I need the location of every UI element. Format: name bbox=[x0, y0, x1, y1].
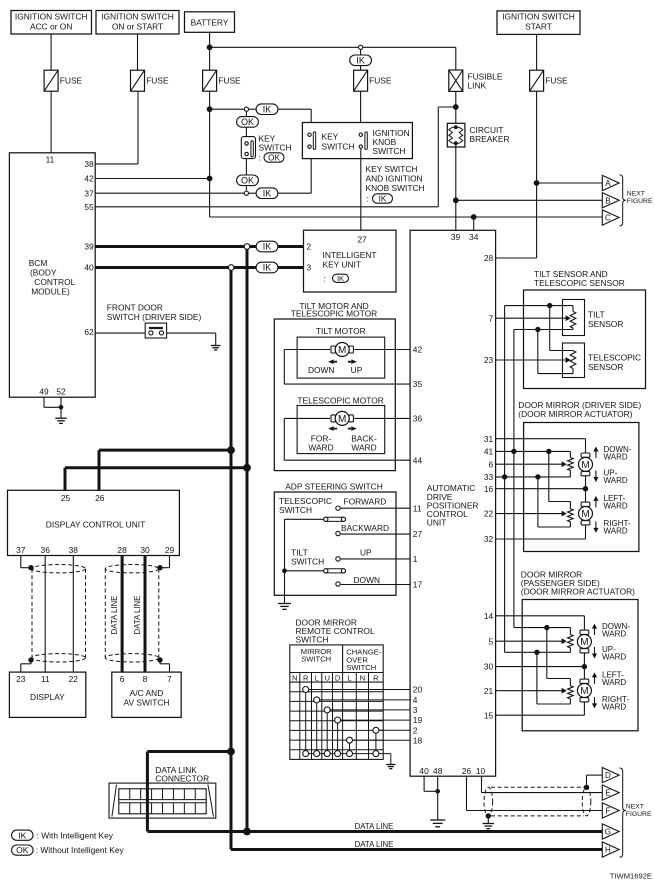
svg-text:SWITCH: SWITCH bbox=[373, 146, 406, 156]
wires: mirror switch rows to ADP pins 20 4 3 19 2 18 bbox=[306, 690, 410, 741]
svg-text:62: 62 bbox=[84, 327, 94, 337]
wire: branch down to driver swivel pot top bbox=[549, 451, 571, 508]
wire: ADP pin 15 to passenger left/right motor bbox=[496, 699, 585, 715]
tilt motor inner box bbox=[297, 337, 385, 378]
svg-text:DISPLAY CONTROL UNIT: DISPLAY CONTROL UNIT bbox=[46, 519, 145, 529]
fuse F2 bbox=[131, 70, 169, 91]
wire: shield to ground bbox=[487, 816, 489, 824]
door mirror passenger side box bbox=[522, 600, 638, 731]
motor M6 passenger mirror left/right bbox=[577, 679, 591, 702]
svg-text:CONTROL: CONTROL bbox=[34, 277, 75, 287]
svg-text:OK: OK bbox=[268, 153, 280, 162]
svg-text:10: 10 bbox=[476, 766, 486, 776]
pin 38 label on BCM bbox=[84, 159, 94, 169]
label: BACKWARD bbox=[341, 523, 389, 533]
tilt switch slider bbox=[285, 569, 346, 573]
pin 27 label on ADP left edge bbox=[413, 529, 423, 539]
node: junction shield / D branch bbox=[584, 785, 589, 790]
wire: ADP pin 41 to driver tilt pot top bbox=[496, 451, 571, 457]
label: TELESCOPIC SENSOR bbox=[588, 352, 641, 372]
wire: supply branch to telescopic sensor top bbox=[550, 306, 573, 351]
svg-text:M: M bbox=[580, 686, 588, 697]
wire: BCM pin 55 branch up to fusible link bbox=[95, 107, 456, 207]
wire: ground branch to telescopic sensor bottom bbox=[538, 330, 573, 374]
label: DOOR MIRROR (PASSENGER SIDE) (DOOR MIRROR ACTUATOR) bbox=[521, 569, 635, 596]
wire: backward contact to ADP pin 27 bbox=[341, 533, 410, 535]
wire: sensor-supply vertical down to passenger tilt pot bottom bbox=[505, 477, 571, 652]
pin 16 label on ADP right edge bbox=[484, 484, 494, 494]
wire: fusible link drop bbox=[455, 47, 457, 128]
wire: data line branch through data link connector (thick) bbox=[147, 752, 231, 832]
svg-text:WARD: WARD bbox=[604, 527, 628, 536]
wire: DCU pin 36 to display pin 11 bbox=[44, 556, 46, 673]
arrow+label: passenger LEFT-WARD bbox=[592, 671, 626, 688]
svg-text:4: 4 bbox=[413, 695, 418, 705]
power source box: IGNITION SWITCH ON or START bbox=[96, 11, 179, 35]
wire: forward contact to ADP pin 11 bbox=[341, 507, 410, 509]
svg-text:41: 41 bbox=[484, 447, 494, 457]
shield: right shielded cable around data line wires bbox=[105, 565, 159, 663]
node: junction pin 41 branch to lower pot bbox=[546, 449, 551, 454]
label oval OK upper bbox=[237, 117, 259, 128]
label: CHANGE-OVER SWITCH header bbox=[346, 648, 381, 673]
connector circle on pin 37 line bbox=[244, 191, 248, 195]
svg-text:IK: IK bbox=[379, 194, 387, 203]
svg-text:33: 33 bbox=[484, 472, 494, 482]
wire: battery vertical below F3 down and right to next-figure C bbox=[210, 91, 603, 217]
svg-text:23: 23 bbox=[484, 355, 494, 365]
wire: branch down to driver swivel pot bottom bbox=[538, 477, 571, 527]
next-figure arrow C bbox=[602, 210, 619, 225]
pin 15 label on ADP right edge bbox=[484, 710, 494, 720]
potentiometer: driver mirror swivel position bbox=[568, 509, 574, 522]
svg-text:42: 42 bbox=[84, 174, 94, 184]
wire: ADP pin 33 to driver tilt pot bottom bbox=[496, 471, 571, 477]
key switch and ignition knob switch box (with intelligent key) bbox=[302, 123, 412, 159]
node: junction sensor-ground vertical / pin 41 bbox=[511, 449, 516, 454]
svg-text:WARD: WARD bbox=[351, 443, 376, 453]
svg-text:L: L bbox=[315, 673, 319, 682]
node: junction B branch bbox=[453, 197, 459, 203]
svg-text:FUSE: FUSE bbox=[146, 75, 169, 85]
wire: ADP pin 23 wiper arrow into telescopic sensor bbox=[496, 357, 571, 363]
next-figure arrow B bbox=[602, 193, 619, 208]
svg-text:START: START bbox=[525, 22, 552, 32]
svg-text:M: M bbox=[580, 637, 588, 648]
svg-text:DOWN: DOWN bbox=[308, 365, 335, 375]
node: junction pin29/shield bbox=[157, 565, 162, 570]
svg-text:IGNITION SWITCH: IGNITION SWITCH bbox=[101, 12, 174, 22]
svg-text:49: 49 bbox=[39, 387, 49, 397]
wire: ADP pin 26 down and right to next-figure F bbox=[467, 776, 603, 810]
pin 35 label on ADP left edge bbox=[413, 379, 423, 389]
wire: ADP pin 31 to driver mirror up/down motor bbox=[496, 439, 586, 454]
svg-text:TILT: TILT bbox=[588, 309, 605, 319]
wire: ADP pin 10 down and right to next-figure E bbox=[482, 776, 603, 792]
svg-text:SENSOR: SENSOR bbox=[588, 362, 623, 372]
tilt motor and telescopic motor outer box bbox=[274, 319, 395, 471]
label: DATA LINE (vertical, left) bbox=[110, 596, 119, 635]
node: junction sensor-supply vertical / pin 33 bbox=[502, 474, 507, 479]
svg-text:52: 52 bbox=[56, 387, 66, 397]
wire: ADP pin 21 wiper arrow into passenger swivel pot bbox=[496, 688, 567, 694]
svg-text:G: G bbox=[605, 828, 611, 837]
node: junction C line / ADP 34 bbox=[471, 214, 477, 220]
wire: shield drain up to next-figure D bbox=[587, 775, 603, 787]
tilt and telescopic sensor outer box bbox=[524, 290, 646, 389]
svg-text:7: 7 bbox=[167, 674, 172, 684]
svg-text:N: N bbox=[292, 673, 297, 682]
node: junction 40/48 ground bbox=[435, 789, 440, 794]
label oval OK lower bbox=[237, 175, 259, 186]
wire: sensor supply line from ADP bbox=[505, 306, 573, 477]
svg-text::: : bbox=[324, 274, 326, 284]
node: battery junction at bus bbox=[207, 44, 213, 50]
circuit breaker CB bbox=[447, 123, 509, 147]
contact circle: up bbox=[336, 557, 340, 561]
contact circle: forward bbox=[336, 506, 340, 510]
node: junction pin 30 / motor link bbox=[582, 664, 587, 669]
wire: ADP pin 16 common to both driver motors bbox=[496, 475, 586, 504]
wire: DATA LINE to next-figure G (thick) bbox=[147, 830, 602, 833]
pin 11 label on BCM bbox=[46, 155, 55, 165]
svg-text:WARD: WARD bbox=[604, 502, 628, 511]
svg-text:KEY SWITCH: KEY SWITCH bbox=[366, 164, 418, 174]
svg-text:21: 21 bbox=[484, 686, 494, 696]
label: UP bbox=[360, 548, 372, 558]
pin 27 label on intelligent key unit bbox=[357, 235, 367, 245]
next-figure arrow E bbox=[602, 785, 619, 800]
svg-text:20: 20 bbox=[413, 685, 423, 695]
svg-text:40: 40 bbox=[84, 263, 94, 273]
svg-text:SWITCH: SWITCH bbox=[259, 143, 292, 153]
front door switch symbol bbox=[145, 323, 166, 338]
label: TILT MOTOR AND TELESCOPIC MOTOR bbox=[291, 301, 377, 319]
node: junction pin 16 / motor link bbox=[583, 486, 588, 491]
wire: key switch IK top path bbox=[210, 109, 312, 133]
wire: BCM pin 40 line (thick) to intelligent key unit pin 3 bbox=[95, 266, 303, 269]
wire: BATTERY down to fuse F3 bbox=[209, 32, 211, 70]
node: junction 49/52 bbox=[59, 405, 64, 410]
key switch (without intelligent key) symbol bbox=[241, 134, 291, 159]
label: TELESCOPIC SWITCH bbox=[279, 496, 332, 515]
svg-text:KEY UNIT: KEY UNIT bbox=[323, 260, 361, 270]
svg-text:38: 38 bbox=[84, 159, 94, 169]
node: junction shield bottom left bbox=[28, 657, 33, 662]
arrow+label: driver RIGHT-WARD bbox=[593, 519, 631, 536]
svg-text:WARD: WARD bbox=[602, 678, 626, 687]
svg-text::: : bbox=[259, 153, 261, 163]
svg-text:27: 27 bbox=[357, 235, 367, 245]
pin 55 label on BCM bbox=[84, 202, 94, 212]
svg-text:(DOOR MIRROR ACTUATOR): (DOOR MIRROR ACTUATOR) bbox=[518, 409, 632, 419]
fuse F1 bbox=[44, 70, 82, 91]
svg-text:TILT MOTOR: TILT MOTOR bbox=[316, 326, 366, 336]
svg-text:M: M bbox=[338, 414, 346, 425]
svg-text:(DOOR MIRROR ACTUATOR): (DOOR MIRROR ACTUATOR) bbox=[521, 587, 635, 597]
label: NEXT FIGURE (bottom) bbox=[626, 803, 652, 818]
wire: BCM pin 37 line with IK oval to key switch box bbox=[95, 148, 311, 193]
svg-text:UP: UP bbox=[360, 548, 372, 558]
svg-text:E: E bbox=[605, 789, 610, 798]
pin 4 label on ADP left edge bbox=[413, 695, 418, 705]
pin 40 label on BCM bbox=[84, 263, 94, 273]
node: junction shield bottom right bbox=[157, 657, 162, 662]
node: junction data line G bbox=[243, 828, 251, 836]
svg-text:48: 48 bbox=[433, 766, 443, 776]
svg-text:8: 8 bbox=[143, 674, 148, 684]
wire: branch down to passenger swivel pot top bbox=[547, 628, 571, 686]
svg-text:37: 37 bbox=[16, 545, 26, 555]
svg-text:3: 3 bbox=[413, 705, 418, 715]
svg-text:BCM: BCM bbox=[29, 258, 48, 268]
svg-text:6: 6 bbox=[120, 674, 125, 684]
label: DOOR MIRROR REMOTE CONTROL SWITCH bbox=[296, 617, 375, 644]
power source box: BATTERY bbox=[185, 12, 235, 33]
svg-text:KNOB SWITCH: KNOB SWITCH bbox=[366, 183, 425, 193]
svg-text:SWITCH: SWITCH bbox=[291, 557, 324, 567]
wire: BCM pin 39 line (thick) to intelligent key unit pin 2 bbox=[95, 245, 303, 248]
label oval IK on pin 40 line bbox=[256, 262, 278, 273]
fuse F3 bbox=[203, 70, 241, 91]
svg-text:7: 7 bbox=[489, 313, 494, 323]
svg-text:5: 5 bbox=[489, 636, 494, 646]
wire: ADP pin 30 common to both passenger motors bbox=[496, 652, 585, 681]
wire: branch (thick) to display control unit pin 26 bbox=[99, 450, 231, 490]
arrow: tilt DOWN direction bbox=[328, 359, 337, 364]
wire: DCU pin 29 to shield bbox=[160, 556, 170, 568]
node: junction pin37/shield bbox=[28, 565, 33, 570]
node: junction data line / DCU 25 bbox=[243, 464, 251, 472]
svg-text:ON or START: ON or START bbox=[112, 22, 163, 32]
wire: up contact to ADP pin 1 bbox=[341, 558, 410, 560]
svg-text:FIGURE: FIGURE bbox=[626, 811, 652, 818]
svg-text:39: 39 bbox=[451, 232, 461, 242]
arrow+label: passenger RIGHT-WARD bbox=[592, 695, 630, 712]
wire: IGN START to fuse F5 down to ADP pin 28 corner bbox=[536, 34, 538, 258]
wire: ADP pin 14 to passenger up/down motor bbox=[496, 616, 585, 631]
svg-text:WARD: WARD bbox=[604, 476, 628, 485]
svg-text:IK: IK bbox=[263, 104, 272, 114]
svg-text:2: 2 bbox=[413, 725, 418, 735]
pin 25 26 labels on DCU top bbox=[61, 493, 105, 503]
pin 30 label on ADP right edge bbox=[484, 662, 494, 672]
svg-text:19: 19 bbox=[413, 715, 423, 725]
pin 23 label on ADP right edge bbox=[484, 355, 494, 365]
arrow+label: driver LEFT-WARD bbox=[593, 494, 628, 511]
wire: IGN ACC to fuse F1 to BCM pin 11 bbox=[50, 34, 52, 153]
node: junction A branch bbox=[534, 180, 540, 186]
svg-text:BATTERY: BATTERY bbox=[191, 17, 229, 27]
telescopic motor inner box bbox=[297, 406, 385, 454]
svg-text:14: 14 bbox=[484, 611, 494, 621]
node: junction shield ground bbox=[486, 813, 491, 818]
ground: BCM bbox=[55, 418, 67, 423]
label oval IK above fuse F4 bbox=[350, 55, 372, 66]
label: TELESCOPIC MOTOR bbox=[297, 395, 383, 405]
wire: ADP pin 5 wiper arrow into passenger tilt pot bbox=[496, 638, 567, 644]
svg-text:26: 26 bbox=[95, 493, 105, 503]
svg-text:: With Intelligent Key: : With Intelligent Key bbox=[37, 830, 114, 840]
next-figure arrow G bbox=[602, 824, 619, 839]
pin 5 label on ADP right edge bbox=[489, 636, 494, 646]
svg-text:FRONT DOOR: FRONT DOOR bbox=[107, 303, 163, 313]
svg-text:OK: OK bbox=[241, 117, 254, 127]
svg-text:WARD: WARD bbox=[602, 629, 626, 638]
svg-text:IK: IK bbox=[356, 56, 365, 66]
svg-text:IK: IK bbox=[337, 274, 344, 283]
svg-text:3: 3 bbox=[307, 263, 312, 273]
legend: IK with intelligent key bbox=[12, 830, 114, 840]
pin 42 label on BCM bbox=[84, 174, 94, 184]
svg-text:30: 30 bbox=[484, 662, 494, 672]
label: TILT SENSOR AND TELESESCOPIC SENSOR bbox=[534, 269, 625, 288]
pin 37 label on BCM bbox=[84, 188, 94, 198]
pin 33 label on ADP right edge bbox=[484, 472, 494, 482]
svg-text:NEXT: NEXT bbox=[626, 803, 644, 810]
intelligent key unit box bbox=[304, 230, 397, 292]
svg-text:WARD: WARD bbox=[602, 653, 626, 662]
svg-text:40: 40 bbox=[419, 766, 429, 776]
node: junction supply to telescopic sensor bbox=[547, 303, 552, 308]
label: DATA LINK CONNECTOR bbox=[155, 765, 209, 784]
svg-text:28: 28 bbox=[117, 545, 127, 555]
wire: circuit breaker down to ADP pin 39 bbox=[455, 143, 457, 230]
svg-text:UP: UP bbox=[351, 365, 363, 375]
svg-text:SWITCH: SWITCH bbox=[296, 635, 329, 645]
shield: left shielded cable around DCU 36/38 wires bbox=[32, 565, 86, 663]
label: DATA LINE (H) bbox=[355, 840, 394, 849]
pin 3 label on intelligent key unit bbox=[307, 263, 312, 273]
legend: OK without intelligent key bbox=[12, 845, 125, 855]
svg-text:AND IGNITION: AND IGNITION bbox=[366, 174, 423, 184]
motor M4 driver mirror left/right bbox=[579, 502, 593, 525]
svg-text:H: H bbox=[605, 846, 611, 855]
wire: BCM pins 49/52 to ground bbox=[44, 397, 61, 418]
display box bbox=[9, 672, 85, 717]
pin 42 label on ADP left edge bbox=[413, 345, 423, 355]
svg-text:IGNITION SWITCH: IGNITION SWITCH bbox=[502, 12, 575, 22]
pin 40 48 26 10 labels on ADP bottom bbox=[419, 766, 485, 776]
pin 22 label on ADP right edge bbox=[484, 509, 494, 519]
node: battery to key-switch loop junction bbox=[207, 106, 213, 112]
svg-text:UNIT: UNIT bbox=[427, 518, 447, 528]
svg-text:SWITCH: SWITCH bbox=[322, 142, 355, 152]
svg-text:MODULE): MODULE) bbox=[31, 287, 70, 297]
pin 36 label on ADP left edge bbox=[413, 414, 423, 424]
wire: OK path vertical through small key switch bbox=[245, 112, 247, 191]
telescopic switch slider bbox=[285, 517, 346, 521]
pin 2 label on ADP left edge bbox=[413, 725, 418, 735]
svg-text:TELESCOPIC MOTOR: TELESCOPIC MOTOR bbox=[291, 309, 377, 319]
label oval IK on pin 39 line bbox=[256, 241, 278, 252]
wire: C line branch down to ADP pin 34 bbox=[473, 217, 475, 230]
svg-text:DATA LINE: DATA LINE bbox=[355, 840, 394, 849]
door mirror driver side box bbox=[524, 423, 639, 552]
svg-text:DATA LINE: DATA LINE bbox=[133, 596, 142, 635]
svg-text:11: 11 bbox=[41, 674, 50, 684]
BCM (body control module) box bbox=[9, 153, 95, 397]
pin 18 label on ADP left edge bbox=[413, 735, 423, 745]
svg-text:16: 16 bbox=[484, 484, 494, 494]
pin 31 label on ADP right edge bbox=[484, 434, 494, 444]
ADP steering switch box bbox=[274, 492, 396, 595]
svg-text:BREAKER: BREAKER bbox=[470, 134, 510, 144]
label oval IK on pin 37 line bbox=[256, 188, 278, 199]
svg-text:32: 32 bbox=[484, 534, 494, 544]
svg-text:FUSE: FUSE bbox=[60, 75, 83, 85]
svg-text:IGNITION SWITCH: IGNITION SWITCH bbox=[15, 12, 88, 22]
pin 39 label on BCM bbox=[84, 242, 94, 252]
svg-text:M: M bbox=[581, 509, 589, 520]
power source box: IGNITION SWITCH ACC or ON bbox=[11, 11, 92, 35]
node: junction data line / DCU 26 bbox=[227, 446, 235, 454]
svg-text:M: M bbox=[581, 460, 589, 471]
wire: BCM pin 62 to front door switch to ground bbox=[95, 333, 216, 345]
pin 2 label on intelligent key unit bbox=[307, 242, 312, 252]
wire: telescopic motor to ADP pin 36 bbox=[354, 417, 410, 419]
svg-text:15: 15 bbox=[484, 710, 494, 720]
svg-text:WARD: WARD bbox=[308, 443, 333, 453]
wire: pin 28 horizontal into ADP unit bbox=[496, 257, 537, 259]
svg-text:SWITCH: SWITCH bbox=[279, 505, 312, 515]
motor M5 passenger mirror up/down bbox=[577, 630, 591, 653]
pin 39 label on ADP top bbox=[451, 232, 461, 242]
wire: ADP pins 40/48 to ground bbox=[424, 776, 438, 820]
svg-text:DATA LINE: DATA LINE bbox=[110, 596, 119, 635]
next-figure arrow A bbox=[602, 175, 619, 190]
wire: BCM pin 42 line to battery vertical bbox=[95, 178, 209, 180]
wire: ADP pin 22 wiper arrow into driver swivel pot bbox=[496, 511, 567, 517]
svg-text:34: 34 bbox=[469, 232, 479, 242]
svg-text:C: C bbox=[605, 214, 611, 223]
wire: down contact to ADP pin 17 bbox=[341, 584, 410, 586]
svg-text:OK: OK bbox=[241, 176, 254, 186]
svg-text:BACKWARD: BACKWARD bbox=[341, 523, 389, 533]
svg-text:38: 38 bbox=[69, 545, 79, 555]
svg-text:TIWM1692E: TIWM1692E bbox=[610, 872, 652, 881]
svg-text:30: 30 bbox=[140, 545, 150, 555]
pin 11 label on ADP left edge bbox=[413, 503, 422, 513]
pin labels on DCU bottom: 37 36 38 28 30 29 bbox=[16, 545, 174, 555]
svg-text:IK: IK bbox=[263, 242, 272, 252]
wire: battery feed bus to fusible link bbox=[210, 46, 456, 48]
potentiometer: passenger mirror swivel position bbox=[568, 686, 574, 699]
label: key switch and ignition knob switch IK note bbox=[366, 164, 425, 204]
potentiometer: driver mirror tilt position bbox=[568, 458, 574, 471]
svg-text:OK: OK bbox=[16, 845, 29, 855]
svg-text:55: 55 bbox=[84, 202, 94, 212]
label: DATA LINE (vertical, right) bbox=[133, 596, 142, 635]
svg-text:A/C AND: A/C AND bbox=[130, 688, 164, 698]
ground: ADP 40/48 bbox=[430, 820, 445, 827]
svg-text:18: 18 bbox=[413, 735, 423, 745]
node: junction battery / pin 42 bbox=[207, 176, 213, 182]
contact circle: down bbox=[336, 582, 340, 586]
svg-text:TELESCOPIC SENSOR: TELESCOPIC SENSOR bbox=[534, 278, 625, 288]
connector circle on pin 40 line bbox=[228, 265, 234, 271]
fusible link FL bbox=[449, 70, 503, 91]
connector circle on IK top path bbox=[244, 107, 248, 111]
svg-text:SWITCH: SWITCH bbox=[346, 663, 376, 672]
svg-text:CONNECTOR: CONNECTOR bbox=[155, 774, 209, 784]
next-figure arrow D bbox=[602, 768, 619, 783]
potentiometer: telescopic sensor bbox=[570, 351, 576, 369]
svg-text:ACC or ON: ACC or ON bbox=[30, 22, 72, 32]
svg-text:IK: IK bbox=[263, 263, 272, 273]
svg-text:SWITCH (DRIVER SIDE): SWITCH (DRIVER SIDE) bbox=[107, 312, 202, 322]
svg-text:FUSE: FUSE bbox=[369, 75, 392, 85]
